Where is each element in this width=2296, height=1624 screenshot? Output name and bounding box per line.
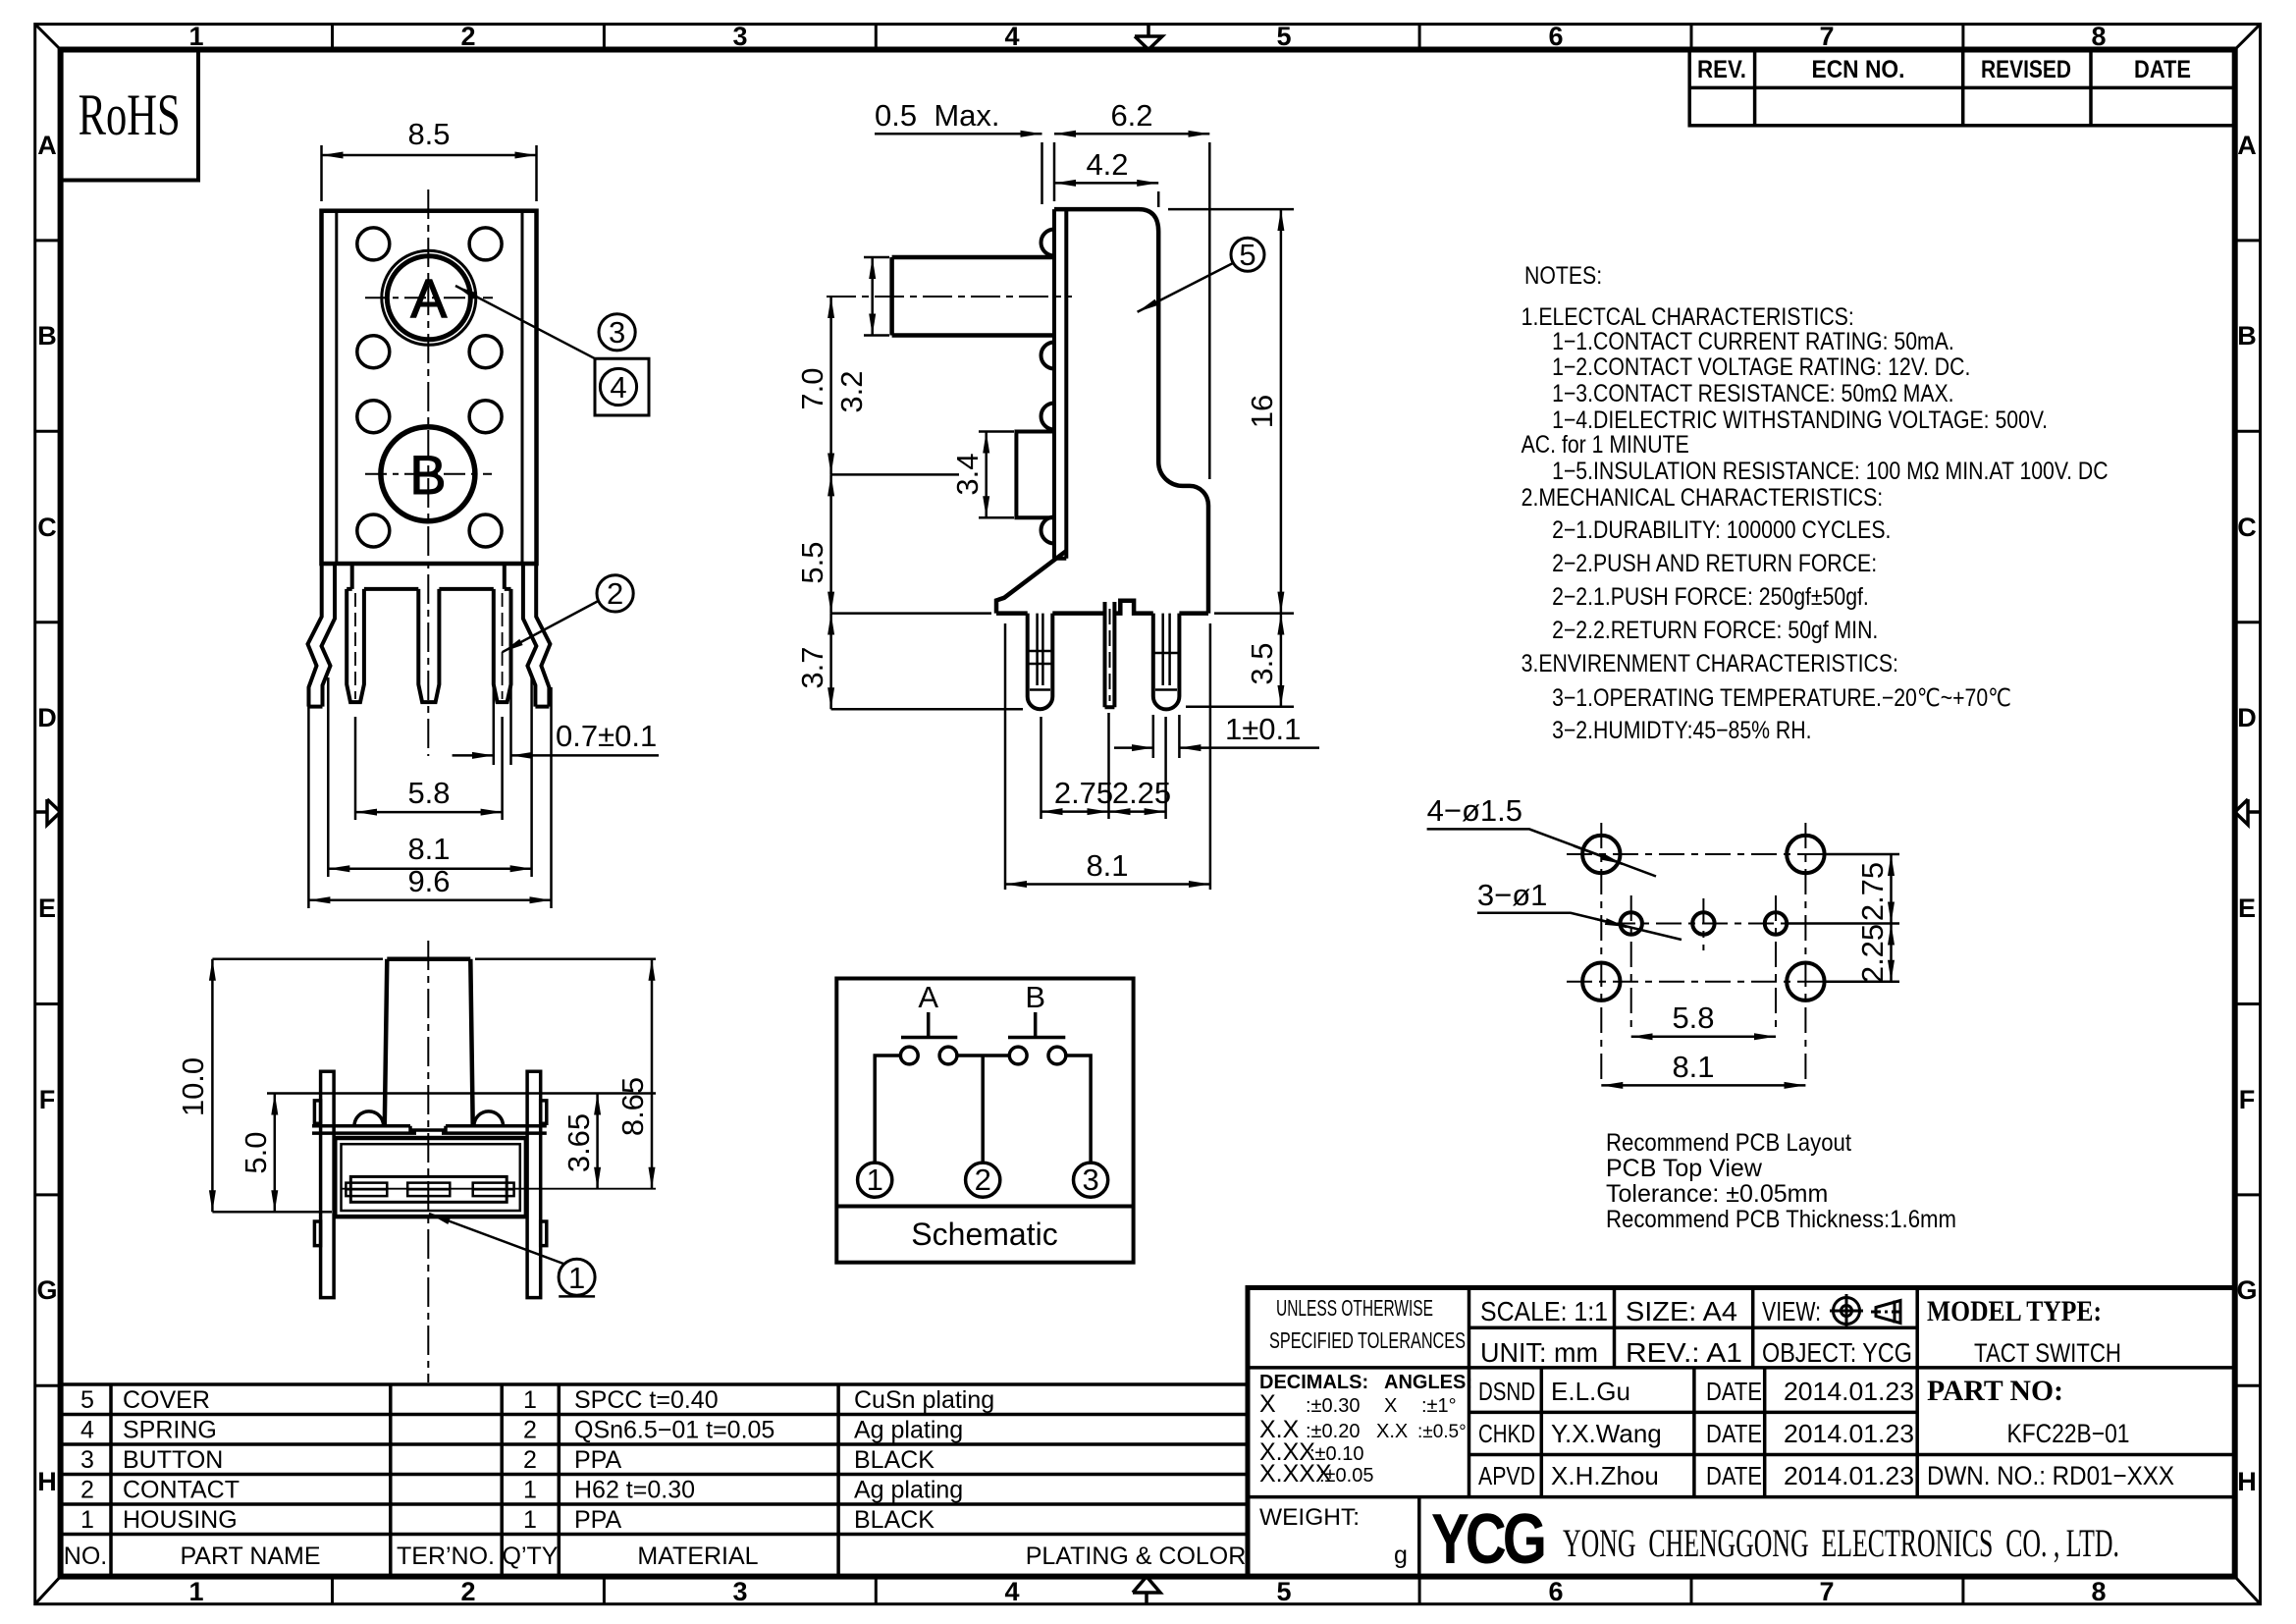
FRONT VIEW (top-left) bbox=[308, 189, 551, 756]
svg-text:HOUSING: HOUSING bbox=[123, 1506, 238, 1534]
svg-text:A: A bbox=[918, 980, 938, 1014]
svg-text:4: 4 bbox=[610, 370, 626, 405]
svg-text:6: 6 bbox=[1548, 22, 1563, 51]
label 4 boxed (spring) bbox=[595, 358, 649, 415]
svg-text:0.5 Max.: 0.5 Max. bbox=[875, 98, 1000, 133]
svg-text:5.8: 5.8 bbox=[1672, 1001, 1714, 1035]
label 2 (contact) bbox=[597, 575, 633, 612]
right bracket bbox=[527, 1071, 541, 1297]
svg-text:5: 5 bbox=[1239, 238, 1255, 272]
leader to housing bbox=[429, 1214, 563, 1264]
svg-text:3: 3 bbox=[1082, 1163, 1098, 1197]
svg-text:Q’TY: Q’TY bbox=[503, 1543, 559, 1570]
svg-text:1: 1 bbox=[80, 1506, 94, 1534]
svg-text:ANGLES:: ANGLES: bbox=[1384, 1372, 1472, 1393]
svg-text:2: 2 bbox=[523, 1446, 537, 1474]
svg-text:A: A bbox=[37, 131, 57, 160]
dim 0.5 Max. bbox=[875, 134, 1209, 479]
switch B actuator bbox=[1008, 1012, 1065, 1038]
svg-text:1: 1 bbox=[188, 22, 203, 51]
mount hole bottom-right bbox=[1787, 963, 1824, 1001]
housing inner walls bbox=[337, 211, 522, 564]
svg-text:BUTTON: BUTTON bbox=[123, 1446, 223, 1474]
dim 5.5 bbox=[831, 474, 991, 613]
dim 2.75 (pcb) bbox=[1787, 854, 1899, 982]
svg-text:SIZE: A4: SIZE: A4 bbox=[1626, 1296, 1737, 1326]
center mark right bbox=[2235, 799, 2261, 825]
svg-text:1−2.CONTACT VOLTAGE RATING:: 1−2.CONTACT VOLTAGE RATING: 12V. DC. bbox=[1552, 352, 1970, 380]
wire pin2 bbox=[957, 1056, 1009, 1163]
svg-text:8: 8 bbox=[2091, 22, 2106, 51]
mount hole bottom-left bbox=[1582, 963, 1620, 1001]
label 3 (button) bbox=[599, 314, 635, 351]
leader to contact pin bbox=[503, 601, 599, 652]
svg-text:5: 5 bbox=[1276, 22, 1291, 51]
svg-text:8.65: 8.65 bbox=[615, 1077, 650, 1136]
svg-text:1: 1 bbox=[523, 1506, 537, 1534]
svg-text:PLATING & COLOR: PLATING & COLOR bbox=[1026, 1543, 1247, 1570]
zone ticks left bbox=[35, 241, 61, 1385]
svg-text:DWN. NO.: RD01−XXX: DWN. NO.: RD01−XXX bbox=[1927, 1461, 2174, 1490]
svg-text:COVER: COVER bbox=[123, 1386, 210, 1414]
left bracket bbox=[321, 1071, 335, 1297]
dim 4.2 bbox=[1054, 183, 1158, 207]
svg-text:SPRING: SPRING bbox=[123, 1417, 217, 1444]
TITLE BLOCK bbox=[1248, 1288, 2235, 1577]
svg-text:G: G bbox=[2236, 1275, 2257, 1305]
dim 8.1 (side) bbox=[1005, 623, 1210, 890]
PARTS TABLE bbox=[61, 1384, 1248, 1577]
dim 6.2 bbox=[1054, 133, 1209, 135]
svg-text:4: 4 bbox=[80, 1417, 94, 1444]
svg-text:4−ø1.5: 4−ø1.5 bbox=[1427, 793, 1522, 828]
svg-text:1: 1 bbox=[568, 1261, 585, 1295]
svg-text:APVD: APVD bbox=[1478, 1461, 1535, 1490]
svg-text:CHKD: CHKD bbox=[1478, 1419, 1535, 1448]
housing bottom edge bbox=[996, 601, 1208, 614]
svg-text:8.1: 8.1 bbox=[407, 832, 450, 866]
svg-text:2: 2 bbox=[80, 1477, 94, 1504]
svg-text:2014.01.23: 2014.01.23 bbox=[1784, 1419, 1914, 1448]
svg-text:2−1.DURABILITY: 100000 CYCLE: 2−1.DURABILITY: 100000 CYCLES. bbox=[1552, 515, 1891, 543]
svg-text:B: B bbox=[2237, 321, 2257, 351]
svg-text::±1°: :±1° bbox=[1421, 1395, 1457, 1417]
svg-text:5.8: 5.8 bbox=[407, 776, 450, 810]
dim 8.1 bbox=[328, 677, 531, 877]
svg-text:X: X bbox=[1384, 1395, 1397, 1417]
svg-text:g: g bbox=[1394, 1542, 1408, 1569]
svg-text:D: D bbox=[2237, 703, 2257, 732]
cover front flange bbox=[1054, 209, 1066, 559]
svg-text:E: E bbox=[38, 893, 56, 923]
svg-text:2−2.1.PUSH FORCE: 250gf±50g: 2−2.1.PUSH FORCE: 250gf±50gf. bbox=[1552, 582, 1869, 610]
svg-text:DSND: DSND bbox=[1478, 1377, 1535, 1406]
leader to cover bbox=[1138, 263, 1233, 312]
svg-text:2.75: 2.75 bbox=[1054, 776, 1113, 810]
svg-text:1−3.CONTACT RESISTANCE: 50mΩ: 1−3.CONTACT RESISTANCE: 50mΩ MAX. bbox=[1552, 379, 1953, 406]
svg-text:3−ø1: 3−ø1 bbox=[1477, 878, 1548, 912]
center terminal plate bbox=[1105, 602, 1115, 707]
PCB note text bbox=[1606, 1129, 1956, 1233]
dim 8.65 bbox=[475, 959, 656, 1189]
svg-text:F: F bbox=[2239, 1085, 2256, 1114]
NOTES text block bbox=[1522, 261, 2109, 743]
svg-text:9.6: 9.6 bbox=[407, 864, 450, 898]
svg-text:3−1.OPERATING TEMPERATURE.−20: 3−1.OPERATING TEMPERATURE.−20℃~+70℃ bbox=[1552, 683, 2011, 711]
BOTTOM VIEW (lower-left) bbox=[312, 941, 656, 1382]
dim 8.1 (pcb) bbox=[1601, 1084, 1805, 1087]
svg-text:RoHS: RoHS bbox=[79, 82, 181, 147]
svg-text:Recommend PCB Thickness:1.6m: Recommend PCB Thickness:1.6mm bbox=[1606, 1206, 1956, 1233]
center mark bottom bbox=[1133, 1577, 1160, 1604]
svg-text:QSn6.5−01 t=0.05: QSn6.5−01 t=0.05 bbox=[574, 1417, 774, 1444]
svg-text:2.MECHANICAL CHARACTERISTICS:: 2.MECHANICAL CHARACTERISTICS: bbox=[1522, 483, 1884, 511]
PCB LAYOUT bbox=[1567, 823, 1849, 1080]
zone numbers top bbox=[188, 22, 2106, 51]
svg-text:PPA: PPA bbox=[574, 1506, 621, 1534]
svg-text:PPA: PPA bbox=[574, 1446, 621, 1474]
svg-text:3.ENVIRENMENT CHARACTERISTICS: 3.ENVIRENMENT CHARACTERISTICS: bbox=[1522, 649, 1898, 677]
svg-text:BLACK: BLACK bbox=[854, 1506, 934, 1534]
svg-text:H: H bbox=[2237, 1467, 2257, 1496]
dim 3.7 bbox=[831, 614, 1023, 710]
cover outline bbox=[1054, 209, 1208, 613]
pin circle 2 bbox=[966, 1163, 1000, 1197]
svg-text:5: 5 bbox=[80, 1386, 94, 1414]
label 5 (cover) bbox=[1231, 238, 1264, 271]
svg-text:E: E bbox=[2238, 893, 2256, 923]
small circle holes bbox=[357, 228, 502, 547]
svg-text:1−5.INSULATION RESISTANCE: 1: 1−5.INSULATION RESISTANCE: 100 MΩ MIN.AT… bbox=[1552, 457, 2108, 484]
svg-text:DATE: DATE bbox=[1706, 1377, 1762, 1406]
switch A actuator bbox=[901, 1012, 957, 1038]
svg-text:SPCC t=0.40: SPCC t=0.40 bbox=[574, 1386, 719, 1414]
svg-text::±0.30: :±0.30 bbox=[1306, 1395, 1360, 1417]
pin hole 3 bbox=[1765, 912, 1787, 934]
svg-text:2−2.PUSH AND RETURN FORCE:: 2−2.PUSH AND RETURN FORCE: bbox=[1552, 549, 1877, 576]
right straight pin bbox=[494, 589, 511, 702]
svg-text:8.5: 8.5 bbox=[407, 117, 450, 151]
dim 1±0.1 bbox=[1114, 715, 1319, 758]
svg-text:3: 3 bbox=[732, 1577, 747, 1606]
svg-text:6.2: 6.2 bbox=[1110, 98, 1152, 133]
leader to hole A bbox=[455, 286, 595, 358]
dim 3.65 bbox=[596, 1094, 599, 1189]
svg-text:X: X bbox=[1259, 1390, 1276, 1418]
svg-text:UNIT: mm: UNIT: mm bbox=[1480, 1337, 1598, 1368]
svg-text::±0.5°: :±0.5° bbox=[1417, 1422, 1467, 1442]
svg-text:H62 t=0.30: H62 t=0.30 bbox=[574, 1477, 695, 1504]
contact pads bbox=[346, 1183, 513, 1197]
svg-text:5.5: 5.5 bbox=[795, 541, 829, 583]
svg-text:G: G bbox=[36, 1275, 57, 1305]
svg-text:B: B bbox=[37, 321, 57, 351]
strip centerline bbox=[341, 1188, 656, 1190]
svg-text:3: 3 bbox=[732, 22, 747, 51]
housing lower-left bbox=[996, 551, 1066, 614]
svg-text:SPECIFIED TOLERANCES: SPECIFIED TOLERANCES bbox=[1269, 1327, 1466, 1353]
dim 5.0 bbox=[267, 1094, 656, 1213]
terminal bumps on flange bbox=[1041, 230, 1055, 544]
housing body outline bbox=[322, 211, 537, 564]
svg-text:3.2: 3.2 bbox=[834, 370, 869, 412]
svg-text:2: 2 bbox=[460, 22, 475, 51]
svg-text:8.1: 8.1 bbox=[1672, 1050, 1714, 1084]
shaft (button stem) bbox=[892, 257, 1052, 336]
svg-text:MATERIAL: MATERIAL bbox=[637, 1543, 758, 1570]
svg-text:3.5: 3.5 bbox=[1245, 642, 1279, 684]
dim 16 bbox=[1168, 209, 1294, 613]
svg-text:Recommend PCB Layout: Recommend PCB Layout bbox=[1606, 1129, 1851, 1157]
zone ticks top bbox=[333, 25, 1963, 50]
svg-text:YONG CHENGGONG ELECTRONICS: YONG CHENGGONG ELECTRONICS CO. , LTD. bbox=[1563, 1521, 2119, 1565]
mount hole top-right bbox=[1787, 836, 1824, 873]
svg-text:REV.: REV. bbox=[1697, 56, 1746, 83]
big hole B bbox=[381, 427, 475, 521]
svg-text:H: H bbox=[37, 1467, 57, 1496]
dim 5.8 bbox=[355, 717, 503, 820]
svg-text:KFC22B−01: KFC22B−01 bbox=[2007, 1419, 2130, 1448]
svg-text:CONTACT: CONTACT bbox=[123, 1477, 240, 1504]
dim 0.7±0.1 bbox=[453, 687, 659, 765]
RoHS box bbox=[61, 50, 198, 181]
zone ticks right bbox=[2235, 241, 2261, 1385]
svg-text:UNLESS OTHERWISE: UNLESS OTHERWISE bbox=[1276, 1295, 1433, 1321]
svg-text:2.25: 2.25 bbox=[1855, 924, 1890, 983]
wire pin3 bbox=[1066, 1056, 1091, 1163]
top plate bbox=[312, 1126, 547, 1133]
svg-text:NO.: NO. bbox=[64, 1543, 107, 1570]
left straight pin bbox=[347, 589, 364, 702]
svg-text:3: 3 bbox=[609, 315, 625, 350]
svg-text:X.H.Zhou: X.H.Zhou bbox=[1551, 1461, 1659, 1490]
svg-text:4: 4 bbox=[1004, 22, 1019, 51]
svg-text:CuSn plating: CuSn plating bbox=[854, 1386, 994, 1414]
svg-text:1: 1 bbox=[188, 1577, 203, 1606]
svg-text:5: 5 bbox=[1276, 1577, 1291, 1606]
svg-text:OBJECT: YCG: OBJECT: YCG bbox=[1762, 1337, 1912, 1368]
centerline through B bbox=[365, 473, 492, 475]
big hole A (double ring) bbox=[382, 250, 476, 345]
svg-text:SCALE: 1:1: SCALE: 1:1 bbox=[1480, 1296, 1608, 1326]
svg-text:5.0: 5.0 bbox=[239, 1131, 273, 1173]
VIEW symbols bbox=[1830, 1294, 1905, 1327]
svg-text:F: F bbox=[39, 1085, 56, 1114]
dim 3.4 bbox=[979, 432, 1014, 518]
svg-text:7: 7 bbox=[1819, 1577, 1834, 1606]
svg-text:1: 1 bbox=[523, 1386, 537, 1414]
svg-text:16: 16 bbox=[1245, 395, 1279, 428]
svg-text:Ag plating: Ag plating bbox=[854, 1417, 963, 1444]
housing box outer bbox=[335, 1138, 526, 1217]
contact circles bbox=[900, 1047, 918, 1064]
zone numbers bottom bbox=[188, 1577, 2106, 1606]
svg-text:1: 1 bbox=[867, 1163, 883, 1197]
svg-text:D: D bbox=[37, 703, 57, 732]
svg-text:1: 1 bbox=[523, 1477, 537, 1504]
svg-text:PART NO:: PART NO: bbox=[1927, 1375, 2063, 1407]
dim 7.0 bbox=[831, 297, 959, 474]
dim 2.75 / 2.25 bbox=[1041, 713, 1166, 819]
zone ticks bottom bbox=[333, 1577, 1963, 1604]
pin centerlines bbox=[355, 593, 503, 699]
svg-text:8.1: 8.1 bbox=[1086, 848, 1128, 883]
schematic box bbox=[836, 979, 1133, 1263]
svg-text:0.7±0.1: 0.7±0.1 bbox=[556, 719, 657, 753]
pin circle 3 bbox=[1074, 1163, 1108, 1197]
center mark left bbox=[35, 799, 61, 825]
svg-text:2: 2 bbox=[523, 1417, 537, 1444]
housing box inner bbox=[342, 1144, 520, 1211]
svg-text:6: 6 bbox=[1548, 1577, 1563, 1606]
dim 8.5 bbox=[322, 145, 537, 201]
zone letters left bbox=[36, 131, 57, 1496]
svg-text:2: 2 bbox=[975, 1163, 991, 1197]
svg-text:3.7: 3.7 bbox=[795, 646, 829, 688]
wire pin1 bbox=[875, 1056, 900, 1163]
svg-text:Schematic: Schematic bbox=[911, 1217, 1057, 1252]
svg-text:PCB Top View: PCB Top View bbox=[1606, 1155, 1763, 1182]
svg-text:DATE: DATE bbox=[1706, 1461, 1762, 1490]
svg-text:3.4: 3.4 bbox=[950, 453, 985, 495]
dim 9.6 bbox=[308, 687, 551, 908]
shaft centerline bbox=[827, 296, 1072, 298]
svg-text:1±0.1: 1±0.1 bbox=[1225, 712, 1301, 746]
SCHEMATIC bbox=[836, 979, 1133, 1263]
vertical centerline bbox=[427, 941, 429, 1382]
svg-text:1−4.DIELECTRIC WITHSTANDING: 1−4.DIELECTRIC WITHSTANDING VOLTAGE: 500… bbox=[1552, 406, 2048, 433]
svg-text:TER’NO.: TER’NO. bbox=[397, 1543, 495, 1570]
svg-text:VIEW:: VIEW: bbox=[1762, 1296, 1821, 1326]
svg-text:BLACK: BLACK bbox=[854, 1446, 934, 1474]
left bent pin bbox=[1028, 614, 1053, 710]
svg-text:X.X: X.X bbox=[1376, 1421, 1408, 1442]
svg-text:PART NAME: PART NAME bbox=[180, 1543, 320, 1570]
svg-text:DATE: DATE bbox=[1706, 1419, 1762, 1448]
svg-text:7.0: 7.0 bbox=[795, 367, 829, 409]
svg-text:4.2: 4.2 bbox=[1086, 147, 1128, 182]
svg-text:3: 3 bbox=[80, 1446, 94, 1474]
dim 3.5 bbox=[1186, 614, 1294, 707]
svg-text:C: C bbox=[2237, 513, 2257, 542]
svg-text:A: A bbox=[2237, 131, 2257, 160]
svg-text:2.25: 2.25 bbox=[1112, 776, 1171, 810]
dim 10.0 bbox=[212, 959, 383, 1212]
svg-text:10.0: 10.0 bbox=[176, 1057, 210, 1116]
left clip leg bbox=[308, 564, 336, 706]
centerline through A bbox=[365, 297, 493, 298]
svg-text:8: 8 bbox=[2091, 1577, 2106, 1606]
svg-text:Y.X.Wang: Y.X.Wang bbox=[1551, 1419, 1662, 1448]
right bent pin bbox=[1153, 614, 1180, 710]
svg-text:3.65: 3.65 bbox=[561, 1113, 596, 1172]
svg-text:2014.01.23: 2014.01.23 bbox=[1784, 1377, 1914, 1406]
svg-text:B: B bbox=[1025, 980, 1045, 1014]
dim 3.2 bbox=[864, 257, 889, 336]
svg-text:2: 2 bbox=[460, 1577, 475, 1606]
svg-text:1−1.CONTACT CURRENT RATING:: 1−1.CONTACT CURRENT RATING: 50mA. bbox=[1552, 327, 1954, 354]
actuator nub bbox=[1016, 432, 1054, 518]
svg-text:REV.: A1: REV.: A1 bbox=[1626, 1337, 1742, 1368]
contact strip band bbox=[350, 1176, 507, 1202]
svg-text:TACT SWITCH: TACT SWITCH bbox=[1974, 1338, 2121, 1368]
vertical centerline bbox=[427, 189, 429, 756]
svg-text:7: 7 bbox=[1819, 22, 1834, 51]
svg-text:ECN NO.: ECN NO. bbox=[1812, 56, 1905, 83]
svg-text:C: C bbox=[37, 513, 57, 542]
svg-text:1.ELECTCAL CHARACTERISTICS:: 1.ELECTCAL CHARACTERISTICS: bbox=[1522, 302, 1854, 330]
label 1 (housing) bbox=[559, 1259, 595, 1295]
centerlines bbox=[1567, 823, 1849, 1080]
zone letters right bbox=[2236, 131, 2257, 1496]
svg-text:2014.01.23: 2014.01.23 bbox=[1784, 1461, 1914, 1490]
dim 5.8 (pcb) bbox=[1631, 1036, 1776, 1039]
svg-text:Ag plating: Ag plating bbox=[854, 1477, 963, 1504]
svg-text:NOTES:: NOTES: bbox=[1524, 261, 1602, 289]
pin hole 2 bbox=[1692, 912, 1714, 934]
svg-text:2−2.2.RETURN FORCE: 50gf MI: 2−2.2.RETURN FORCE: 50gf MIN. bbox=[1552, 616, 1878, 643]
button shaft bbox=[385, 959, 473, 1125]
svg-text:3−2.HUMIDTY:45−85% RH.: 3−2.HUMIDTY:45−85% RH. bbox=[1552, 716, 1811, 743]
center straight pin bbox=[418, 589, 439, 702]
pin hole 1 bbox=[1621, 912, 1642, 934]
svg-text:WEIGHT:: WEIGHT: bbox=[1259, 1504, 1360, 1531]
svg-text:AC. for 1 MINUTE: AC. for 1 MINUTE bbox=[1522, 430, 1689, 458]
REV TABLE bbox=[1689, 50, 2235, 126]
svg-text:REVISED: REVISED bbox=[1981, 56, 2071, 83]
right clip leg bbox=[523, 564, 551, 706]
svg-text:E.L.Gu: E.L.Gu bbox=[1551, 1377, 1630, 1406]
pin circle 1 bbox=[858, 1163, 892, 1197]
svg-text:YCG: YCG bbox=[1431, 1500, 1544, 1579]
center mark top bbox=[1135, 25, 1162, 50]
svg-text:4: 4 bbox=[1004, 1577, 1019, 1606]
svg-text:Tolerance: ±0.05mm: Tolerance: ±0.05mm bbox=[1606, 1180, 1828, 1208]
svg-text:2: 2 bbox=[607, 576, 623, 611]
SIDE VIEW (top-center) bbox=[827, 209, 1208, 709]
mount hole top-left bbox=[1582, 836, 1620, 873]
dome bumps on top plate bbox=[354, 1111, 504, 1126]
svg-text:MODEL TYPE:: MODEL TYPE: bbox=[1927, 1295, 2102, 1327]
svg-text::±0.05: :±0.05 bbox=[1319, 1465, 1373, 1487]
svg-text:DATE: DATE bbox=[2134, 56, 2191, 83]
bottom plate bbox=[347, 564, 510, 589]
svg-text:2.75: 2.75 bbox=[1855, 862, 1890, 921]
